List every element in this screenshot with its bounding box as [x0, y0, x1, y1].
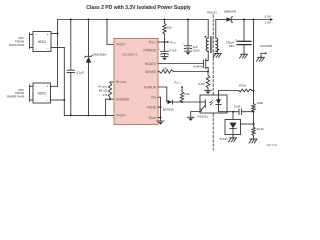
wire RCLASS pin stub: [110, 81, 114, 83]
svg-text:1.5A: 1.5A: [265, 20, 272, 24]
transformer T1 PA1133 primary: [205, 11, 218, 52]
label output 3.3V 1.5A: [265, 15, 274, 25]
svg-text:BAS516: BAS516: [163, 107, 174, 111]
svg-text:~: ~: [35, 33, 37, 37]
capacitor C5 22nF: [234, 104, 242, 114]
wire data pair input top: [30, 34, 34, 36]
node junction BR1+: [57, 33, 59, 35]
svg-text:1%: 1%: [103, 93, 108, 97]
capacitor C2 4.7uF: [158, 42, 176, 57]
wire feedback vertical: [253, 20, 255, 104]
node top rail VPORTP tap: [106, 19, 108, 21]
transformer T1 core: [209, 37, 211, 53]
wire TL431 ref: [241, 123, 254, 125]
svg-text:0.1μF: 0.1μF: [77, 71, 85, 75]
svg-text:Si3440: Si3440: [193, 64, 203, 68]
wire C1 upper lead: [70, 20, 72, 71]
shunt regulator U3 TL431: [219, 112, 240, 141]
bridge rectifier BR2 HD01: [33, 83, 51, 103]
wire data pair input bottom: [30, 47, 34, 49]
svg-text:+: +: [46, 85, 48, 89]
wire VPORTP drop: [107, 20, 114, 45]
svg-text:10k: 10k: [167, 26, 172, 30]
chassis connection symbol: [260, 44, 272, 58]
resistor RCLASS 68.1 ohm: [108, 83, 111, 98]
wire RCLASS bottom: [109, 97, 111, 99]
ground output cap: [240, 54, 248, 58]
node top rail C1 tap: [70, 19, 72, 21]
node Q1 source / sense junction: [207, 71, 209, 73]
resistor R6 475 ohm: [239, 84, 253, 92]
svg-text:100V: 100V: [193, 49, 200, 53]
node PVCC junction: [164, 41, 166, 43]
node bottom rail D3: [88, 114, 90, 116]
TVS diode D3 SMAJ58A: [85, 53, 107, 63]
svg-text:SENSE: SENSE: [145, 70, 157, 74]
svg-text:PA1133: PA1133: [207, 11, 217, 15]
wire SIGDISA line: [106, 98, 114, 100]
resistor R4 0.1 ohm: [198, 72, 210, 91]
wire spare pair input top: [30, 85, 34, 87]
ground PVCC cap: [161, 57, 168, 61]
svg-text:PVCC: PVCC: [174, 80, 181, 84]
wire D3 upper lead: [88, 20, 90, 57]
wire PVCC pin: [158, 41, 165, 43]
node top rail C3 tap: [187, 19, 189, 21]
wire C1 lower lead: [70, 73, 72, 116]
ground IC signal ground: [157, 121, 164, 125]
svg-text:−: −: [47, 47, 49, 51]
svg-text:HD01: HD01: [38, 40, 47, 44]
svg-text:NGATE: NGATE: [145, 62, 157, 66]
wire LED cathode to TL431 node: [219, 111, 240, 113]
svg-text:10k: 10k: [163, 66, 168, 70]
svg-text:DATA PAIR: DATA PAIR: [9, 43, 25, 47]
wire diode to 6.8k: [173, 101, 183, 103]
resistor R8 60.4k: [252, 112, 265, 139]
svg-text:+: +: [158, 48, 160, 51]
wire top rail VPORTP: [58, 19, 209, 21]
svg-text:SMAJ58A: SMAJ58A: [93, 53, 106, 57]
wire output rail 3.3V: [232, 19, 271, 21]
wire BR1 minus output: [51, 47, 64, 49]
wire D3 lower lead: [88, 63, 90, 116]
capacitor C4 330uF: [226, 20, 251, 55]
wire spare pair input bottom: [30, 99, 34, 101]
svg-text:SPARE PAIR: SPARE PAIR: [6, 95, 24, 99]
node VPORTN rail junction: [105, 114, 107, 116]
wire SGND stub: [158, 117, 161, 119]
node output cap tap: [243, 19, 245, 21]
wire NGATE to Q1 gate: [158, 63, 204, 65]
wire bottom rail VPORTN: [64, 114, 114, 116]
node bottom rail C1: [70, 114, 72, 116]
wire 22nF to ref node: [241, 111, 253, 113]
wire positive bus vertical: [57, 20, 59, 87]
svg-text:MIN: MIN: [229, 44, 235, 48]
svg-text:PWRGD: PWRGD: [144, 48, 157, 52]
wire 475 to opto LED: [219, 91, 239, 96]
svg-text:~: ~: [35, 85, 37, 89]
node ref junction: [253, 111, 255, 113]
svg-text:100k: 100k: [257, 101, 264, 105]
svg-text:22nF: 22nF: [234, 104, 241, 108]
capacitor C1 0.1uF: [67, 70, 84, 74]
resistor R1 10k PVCC pullup: [163, 19, 172, 43]
svg-text:SBM1040: SBM1040: [224, 9, 237, 13]
svg-text:Class 2 PD with 3.3V Isolated: Class 2 PD with 3.3V Isolated Power Supp…: [86, 5, 191, 11]
wire secondary top to diode: [216, 19, 227, 21]
ground C3: [185, 51, 192, 55]
ground opto emitter: [187, 117, 194, 121]
svg-text:~: ~: [35, 47, 37, 51]
wire BR1 plus output: [51, 33, 58, 35]
svg-text:6.8k: 6.8k: [184, 92, 190, 96]
ground 60.4k: [249, 139, 257, 143]
isolation barrier dashed line: [212, 15, 214, 150]
svg-text:LTC4267-1: LTC4267-1: [122, 52, 138, 56]
wire negative bus vertical: [63, 48, 65, 116]
wire SENSE line: [174, 71, 209, 73]
svg-text:SIGDISA: SIGDISA: [116, 97, 130, 101]
svg-text:PS2911: PS2911: [198, 114, 209, 118]
wire secondary return: [216, 51, 218, 53]
wire opto emitter to ground: [191, 110, 202, 118]
wire PGND stub: [158, 106, 161, 108]
label PVCC net arrow: [165, 40, 177, 44]
label PVCC arrow at 6.8k: [174, 80, 183, 91]
wire VFB stub: [158, 97, 161, 121]
transformer T1 secondary: [216, 20, 219, 52]
input terminal bar (spare pair): [29, 85, 31, 102]
svg-text:4.7μF: 4.7μF: [169, 49, 177, 53]
node TL431 cathode junction: [232, 111, 234, 113]
wire TL431 anode: [232, 135, 234, 138]
node top rail D3 tap: [88, 19, 90, 21]
node junction BR2-: [63, 99, 65, 101]
ground secondary return: [213, 53, 221, 57]
svg-text:475Ω: 475Ω: [239, 84, 247, 88]
svg-text:PGND: PGND: [147, 105, 157, 109]
svg-text:+: +: [47, 33, 49, 37]
op-amp U1 LTC4267-1: [114, 39, 158, 125]
svg-text:+: +: [182, 42, 184, 45]
node output fb tap: [253, 19, 255, 21]
diode D1 SBM1040: [224, 9, 237, 22]
node RCLASS/SIGDISA junction: [109, 98, 111, 100]
svg-text:HD01: HD01: [38, 92, 47, 96]
input terminal bar (data pair): [29, 33, 31, 49]
svg-text:60.4k: 60.4k: [257, 127, 265, 131]
node fb 475 tap: [253, 90, 255, 92]
wire SIGDISA drop to VPORTN: [105, 99, 107, 115]
bridge rectifier BR1 HD01: [33, 32, 51, 52]
resistor R7 100k: [252, 101, 264, 112]
svg-text:TL431: TL431: [219, 137, 228, 141]
svg-text:CHASSIS: CHASSIS: [260, 44, 272, 48]
svg-text:4267 TA01: 4267 TA01: [266, 144, 278, 147]
wire BR2 minus output: [51, 99, 65, 101]
resistor R5 6.8k: [180, 92, 190, 103]
svg-text:0.1Ω: 0.1Ω: [198, 82, 205, 86]
wire ITH/RUN: [158, 87, 167, 102]
svg-text:3.3V: 3.3V: [265, 15, 272, 19]
resistor R3 10k sense filter: [159, 66, 174, 73]
transistor Q1 Si3440: [193, 52, 208, 72]
svg-text:~: ~: [35, 99, 37, 103]
wire BR2 plus output: [51, 85, 58, 87]
ground R4: [205, 90, 212, 94]
ground chassis: [257, 57, 265, 61]
wire ITH line to opto collector: [182, 101, 200, 103]
diode D4 BAS516: [163, 100, 174, 111]
optocoupler U2 PS2911: [198, 95, 228, 118]
svg-text:−: −: [46, 99, 48, 103]
capacitor C3 1uF 100V: [182, 20, 200, 53]
svg-text:PVCC: PVCC: [170, 40, 177, 44]
ground TL431: [229, 138, 237, 142]
